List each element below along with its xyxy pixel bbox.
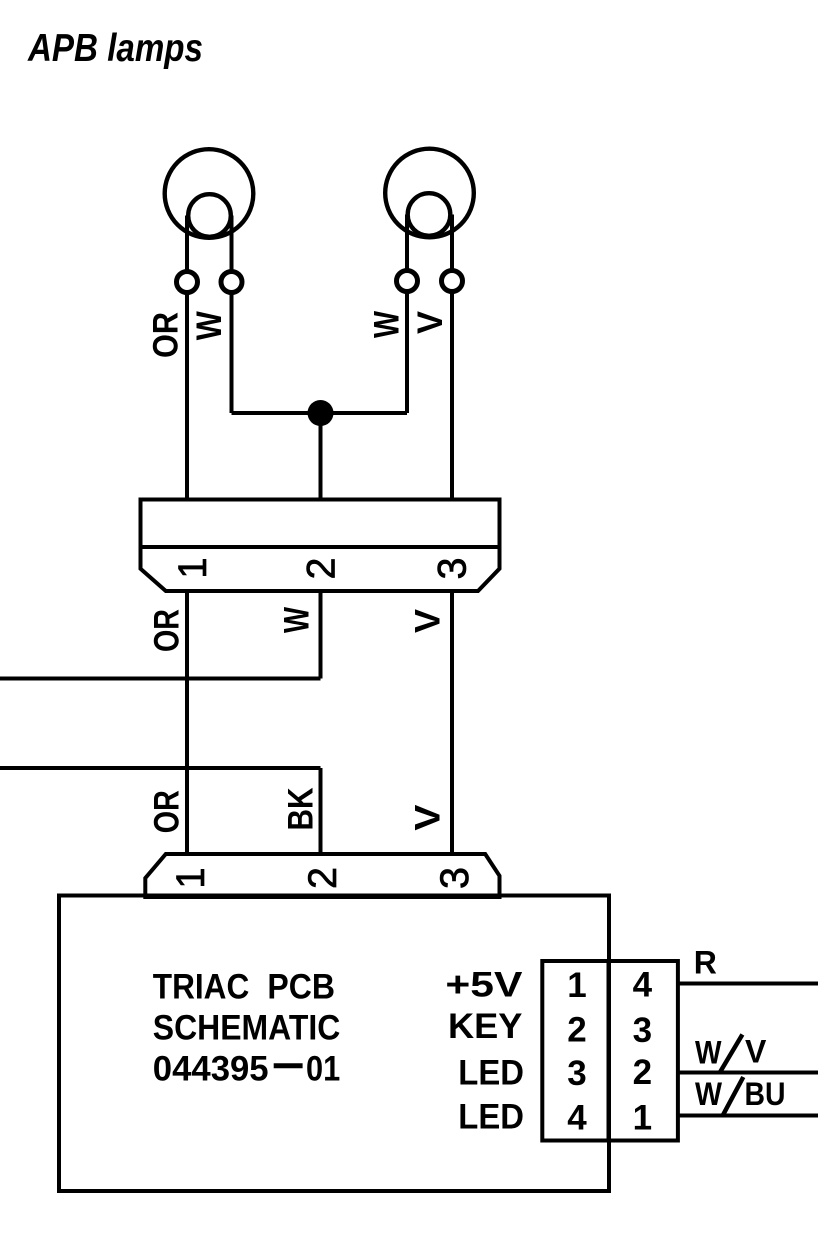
junction node W wires: [308, 400, 334, 426]
wire R from pin 4: [678, 982, 818, 986]
svg-text:3: 3: [433, 867, 477, 889]
wire lamp-right left lead: [405, 215, 409, 271]
svg-text:044395: 044395: [153, 1050, 269, 1089]
svg-text:1: 1: [633, 1099, 652, 1138]
wire BK down to J2 pin 2: [319, 768, 323, 854]
connector J2 trapezoid body: [145, 854, 499, 897]
svg-text:V: V: [411, 310, 450, 334]
wire lamp-left left lead: [185, 216, 189, 272]
svg-text:3: 3: [567, 1054, 586, 1093]
lamp left base circle: [188, 194, 231, 237]
label W/V slash: [720, 1035, 743, 1073]
label 044395-01 line 3: [274, 1063, 303, 1068]
svg-text:4: 4: [633, 966, 653, 1005]
wire OR between connectors: [185, 591, 189, 854]
svg-text:APB lamps: APB lamps: [27, 27, 203, 70]
svg-text:W: W: [368, 311, 407, 338]
svg-text:4: 4: [567, 1099, 587, 1138]
svg-text:PCB: PCB: [267, 968, 335, 1007]
svg-text:OR: OR: [147, 609, 186, 652]
svg-text:V: V: [408, 608, 447, 633]
svg-text:W: W: [695, 1076, 723, 1112]
svg-text:W: W: [695, 1034, 722, 1070]
wire W from right lamp down: [405, 292, 409, 414]
wire BK horizontal feed entering left: [0, 766, 321, 770]
lamp right bulb outer circle: [385, 149, 474, 238]
svg-text:01: 01: [306, 1050, 340, 1089]
svg-text:V: V: [745, 1034, 767, 1070]
wire OR from left lamp to connector pin 1: [185, 293, 189, 502]
svg-text:3: 3: [431, 558, 475, 580]
terminal circle left lamp pin OR: [177, 272, 198, 293]
lamp right base circle: [408, 193, 451, 236]
svg-text:OR: OR: [146, 312, 185, 358]
connector J1 body rectangle: [141, 500, 500, 548]
label W/BU slash: [723, 1077, 744, 1116]
svg-text:2: 2: [567, 1011, 586, 1050]
wire W from left lamp down: [230, 293, 234, 414]
wire V from right lamp to connector pin 3: [450, 292, 454, 502]
svg-text:SCHEMATIC: SCHEMATIC: [153, 1009, 340, 1048]
svg-text:R: R: [694, 945, 717, 981]
lamp left bulb outer circle: [165, 149, 254, 238]
svg-text:TRIAC: TRIAC: [153, 968, 250, 1007]
connector J3 center divider: [607, 961, 611, 1141]
terminal circle right lamp pin V: [442, 271, 463, 292]
svg-text:KEY: KEY: [448, 1007, 522, 1046]
connector J3 table outline: [542, 961, 678, 1141]
TRIAC PCB box: [59, 896, 609, 1192]
svg-text:2: 2: [300, 558, 344, 580]
svg-text:W: W: [190, 311, 229, 340]
wire V between connectors: [450, 591, 454, 854]
wire W pin2 down from J1: [319, 591, 323, 679]
wire W/V from pin 2: [678, 1071, 818, 1075]
svg-text:V: V: [408, 804, 447, 831]
svg-text:OR: OR: [147, 790, 186, 833]
svg-text:1: 1: [169, 868, 213, 889]
wire W/BU from pin 1: [678, 1114, 818, 1118]
svg-text:LED: LED: [458, 1054, 524, 1093]
wire W horizontal to junction: [232, 411, 321, 415]
svg-text:+5V: +5V: [445, 966, 523, 1005]
terminal circle right lamp pin W: [397, 271, 418, 292]
svg-text:1: 1: [567, 966, 586, 1005]
wire lamp-left right lead: [230, 216, 234, 272]
svg-text:3: 3: [633, 1011, 652, 1050]
wire W horizontal to junction from right: [321, 411, 408, 415]
terminal circle left lamp pin W: [221, 272, 242, 293]
svg-text:BK: BK: [282, 788, 321, 831]
wire W horizontal feed exiting left: [0, 677, 321, 681]
svg-text:W: W: [278, 607, 317, 633]
connector J1 lower trapezoid: [141, 547, 500, 591]
svg-text:BU: BU: [745, 1076, 786, 1112]
svg-text:2: 2: [301, 867, 345, 889]
wire lamp-right right lead: [450, 215, 454, 271]
wire from junction to connector pin 2: [319, 413, 323, 501]
svg-text:2: 2: [633, 1053, 652, 1092]
svg-text:1: 1: [171, 558, 215, 579]
svg-text:LED: LED: [458, 1098, 524, 1137]
